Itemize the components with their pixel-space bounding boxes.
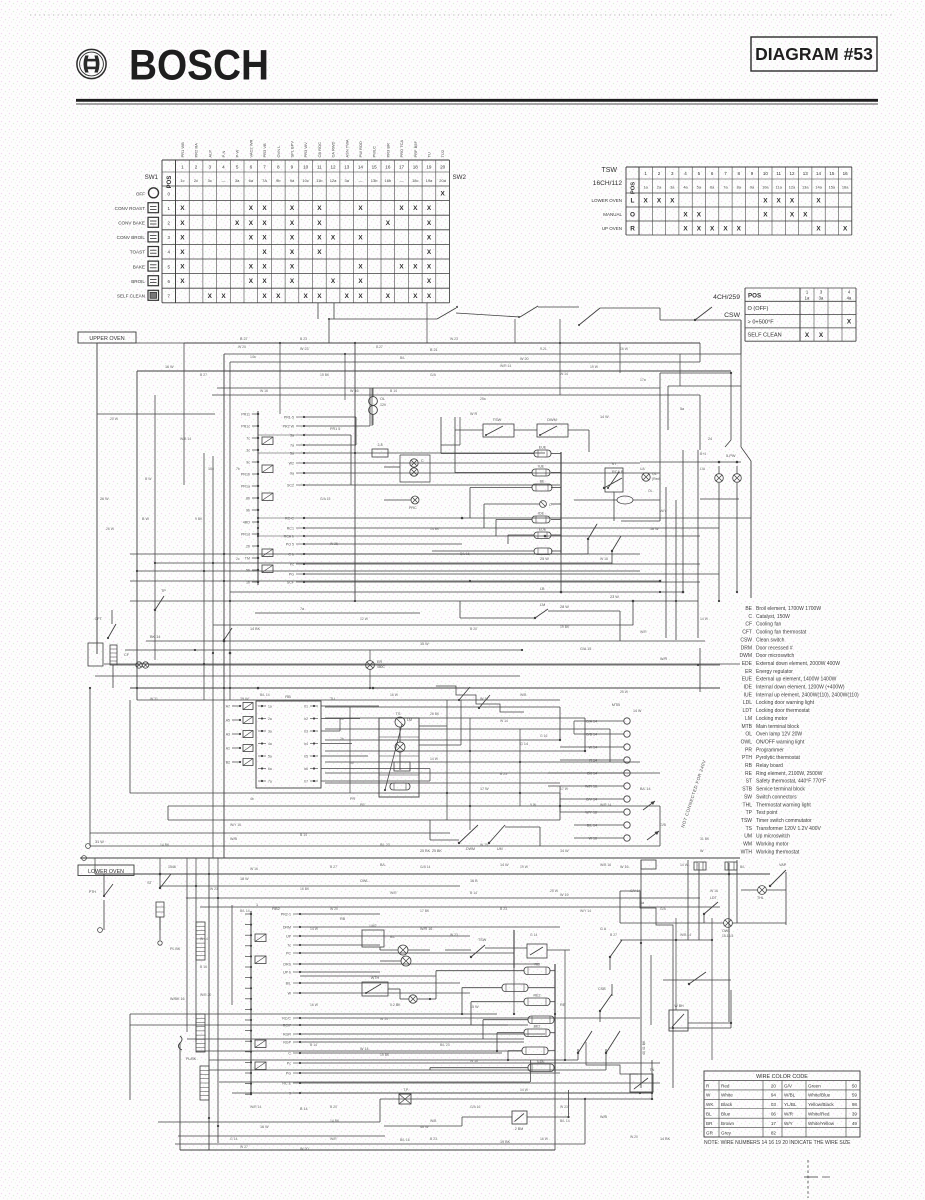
svg-text:13: 13	[803, 171, 809, 176]
svg-text:15 W: 15 W	[470, 1005, 479, 1009]
wire	[568, 1090, 570, 1117]
svg-text:X: X	[345, 293, 350, 300]
svg-text:RE: RE	[745, 771, 753, 777]
wire	[485, 947, 527, 949]
wire staircase right	[620, 891, 673, 956]
svg-text:50: 50	[852, 1083, 858, 1088]
svg-text:Service terminal block: Service terminal block	[756, 787, 805, 793]
svg-text:10a: 10a	[762, 185, 769, 190]
svg-text:OWL: OWL	[741, 739, 753, 745]
svg-text:14a: 14a	[250, 355, 256, 359]
wire	[350, 435, 352, 485]
wire	[632, 601, 634, 625]
svg-text:B/L: B/L	[390, 935, 395, 939]
svg-text:X: X	[697, 211, 702, 218]
wire staircase lower b	[586, 1065, 638, 1074]
wire	[430, 839, 459, 841]
svg-text:25 BK: 25 BK	[432, 849, 442, 853]
svg-text:18 W: 18 W	[240, 877, 249, 881]
wire	[103, 874, 105, 896]
wire	[682, 450, 684, 592]
wire	[484, 503, 540, 505]
svg-text:B 27: B 27	[610, 933, 617, 937]
svg-text:RC/7: RC/7	[283, 1024, 291, 1028]
svg-text:Relay board: Relay board	[756, 763, 783, 769]
wire color code table	[704, 1071, 860, 1137]
wire	[380, 949, 398, 951]
svg-text:ST: ST	[147, 881, 153, 885]
svg-text:G/B 14: G/B 14	[586, 733, 597, 737]
wire RB2 pin b	[293, 1072, 300, 1074]
switch CSB	[599, 1010, 601, 1012]
svg-text:16 W: 16 W	[310, 1003, 319, 1007]
svg-text:4a: 4a	[268, 742, 272, 746]
svg-text:16 W: 16 W	[165, 365, 174, 369]
wire	[698, 863, 700, 940]
lamp ER	[366, 661, 375, 670]
svg-text:2c: 2c	[236, 557, 240, 561]
svg-text:11: 11	[317, 165, 322, 170]
junction	[369, 687, 371, 689]
svg-text:X: X	[249, 264, 254, 271]
svg-text:W/B 14: W/B 14	[180, 437, 191, 441]
wire	[732, 922, 786, 924]
svg-text:IDE: IDE	[538, 512, 545, 516]
wire	[633, 499, 660, 501]
wire	[369, 669, 371, 688]
junction	[697, 664, 699, 666]
svg-text:X: X	[413, 205, 418, 212]
svg-text:Safety thermostat, 440°F 770°F: Safety thermostat, 440°F 770°F	[756, 779, 826, 785]
svg-text:EUE: EUE	[742, 677, 753, 683]
wire	[369, 388, 371, 426]
connector box	[255, 1062, 266, 1070]
wire	[462, 987, 502, 989]
svg-text:Door recessed #: Door recessed #	[756, 645, 793, 651]
svg-text:25a: 25a	[480, 397, 486, 401]
resistor GR3	[200, 1066, 209, 1100]
wire	[231, 905, 233, 1005]
svg-text:WIRE COLOR CODE: WIRE COLOR CODE	[756, 1074, 808, 1080]
wire	[527, 1116, 569, 1118]
wire	[496, 519, 532, 521]
svg-text:POS: POS	[631, 182, 637, 194]
wire	[186, 858, 188, 874]
svg-text:W 16: W 16	[589, 837, 597, 841]
UPPER OVEN label	[78, 332, 136, 343]
wire	[137, 370, 731, 372]
svg-text:—: —	[400, 178, 404, 183]
element X-box	[399, 1094, 411, 1104]
connector strip RB2	[245, 911, 252, 1095]
wire	[711, 918, 713, 1060]
wire RB2 pin	[293, 971, 300, 973]
transformer TS	[379, 711, 419, 797]
svg-text:VAP: VAP	[779, 863, 787, 867]
svg-text:15-16-5: 15-16-5	[722, 934, 734, 938]
svg-text:C b: C b	[288, 553, 294, 557]
svg-text:W 20: W 20	[330, 907, 338, 911]
svg-text:OWL: OWL	[360, 879, 368, 883]
junction	[446, 792, 448, 794]
svg-text:PR1 5: PR1 5	[330, 427, 340, 431]
svg-text:G/A: G/A	[660, 907, 667, 911]
svg-text:B/L 14: B/L 14	[560, 1119, 570, 1123]
svg-text:0.2 BK: 0.2 BK	[390, 1003, 401, 1007]
svg-text:b5: b5	[304, 755, 308, 759]
svg-text:14 W: 14 W	[680, 863, 689, 867]
svg-text:14 BK: 14 BK	[430, 527, 440, 531]
svg-text:> 0+500°F: > 0+500°F	[748, 319, 775, 325]
svg-text:X: X	[683, 225, 688, 232]
svg-text:10c: 10c	[302, 178, 308, 183]
svg-text:Brown: Brown	[721, 1121, 734, 1126]
svg-text:X: X	[399, 264, 404, 271]
svg-text:3a: 3a	[819, 296, 824, 301]
junction	[303, 517, 305, 519]
svg-text:C: C	[748, 614, 752, 620]
junction	[730, 1022, 732, 1024]
wire	[371, 388, 373, 426]
switch RE sw	[577, 1052, 579, 1054]
svg-text:ASN TWA: ASN TWA	[344, 139, 349, 157]
svg-text:16: 16	[385, 165, 391, 170]
wire	[483, 504, 485, 528]
svg-text:12V: 12V	[380, 403, 387, 407]
svg-text:25 W: 25 W	[540, 557, 549, 561]
svg-text:TU: TU	[330, 697, 335, 701]
svg-text:WTH: WTH	[371, 976, 380, 980]
element EUE	[534, 450, 551, 457]
svg-text:OVN L: OVN L	[276, 145, 281, 158]
svg-text:14 W: 14 W	[310, 927, 319, 931]
wire	[399, 727, 401, 742]
svg-text:4CH/259: 4CH/259	[713, 294, 740, 301]
svg-text:X: X	[427, 249, 432, 256]
svg-text:3a: 3a	[268, 730, 272, 734]
svg-text:—: —	[221, 178, 225, 183]
wire PR3 pin	[296, 553, 304, 555]
svg-text:CB ROC: CB ROC	[317, 142, 322, 158]
svg-text:G 14: G 14	[530, 933, 537, 937]
svg-text:X: X	[262, 278, 267, 285]
svg-text:X: X	[803, 211, 808, 218]
svg-text:9c: 9c	[246, 461, 250, 465]
wire	[740, 386, 742, 447]
wire	[429, 1068, 431, 1070]
element BE	[532, 484, 552, 491]
svg-text:6a: 6a	[268, 767, 272, 771]
svg-text:39: 39	[852, 1112, 858, 1117]
wire PR2 pin	[296, 452, 304, 454]
wire	[675, 500, 677, 640]
lamp OWL2	[724, 919, 733, 928]
svg-text:20a: 20a	[439, 178, 446, 183]
svg-text:PR3 VB: PR3 VB	[262, 143, 267, 158]
svg-text:PR1b: PR1b	[241, 473, 250, 477]
svg-text:X: X	[290, 205, 295, 212]
wire	[90, 832, 450, 834]
svg-text:X: X	[427, 264, 432, 271]
svg-text:W/Y: W/Y	[660, 509, 667, 513]
svg-text:W/R 16: W/R 16	[420, 927, 432, 931]
svg-text:7: 7	[263, 165, 266, 170]
svg-text:X: X	[386, 220, 391, 227]
svg-text:8b: 8b	[246, 497, 250, 501]
svg-text:Red: Red	[721, 1083, 730, 1088]
svg-text:14 W: 14 W	[520, 1088, 529, 1092]
svg-text:DRM: DRM	[741, 645, 752, 651]
header rule	[76, 99, 878, 102]
svg-text:9b: 9b	[246, 509, 250, 513]
svg-text:B/L 14: B/L 14	[240, 909, 250, 913]
svg-text:Locking door thermostat: Locking door thermostat	[756, 708, 810, 714]
switch box 2BM	[512, 1111, 527, 1124]
connector strip SW upper	[226, 703, 253, 766]
wire	[208, 858, 210, 874]
svg-text:B 27: B 27	[200, 373, 207, 377]
svg-text:PRO TCA: PRO TCA	[399, 139, 404, 157]
wire	[111, 610, 113, 624]
svg-text:12a: 12a	[789, 185, 796, 190]
svg-text:Switch connectors: Switch connectors	[756, 794, 797, 800]
svg-text:X: X	[427, 220, 432, 227]
svg-text:W 19: W 19	[480, 843, 488, 847]
svg-text:B 27: B 27	[240, 337, 248, 341]
svg-text:PTH: PTH	[742, 755, 752, 761]
wire	[669, 1027, 731, 1029]
wire	[440, 417, 442, 454]
svg-text:Cooling fan: Cooling fan	[756, 622, 782, 628]
svg-text:94: 94	[771, 1093, 777, 1098]
svg-text:W/R 16: W/R 16	[585, 785, 597, 789]
svg-text:Internal up element, 2400W(110: Internal up element, 2400W(110), 2400W(1…	[756, 692, 859, 698]
svg-text:CONV ROAST: CONV ROAST	[115, 206, 146, 211]
svg-text:W 23: W 23	[450, 933, 458, 937]
wire	[380, 1098, 651, 1100]
svg-text:15 W: 15 W	[420, 642, 429, 646]
svg-text:B 14: B 14	[390, 389, 397, 393]
wire	[574, 499, 617, 501]
wire	[137, 699, 560, 701]
junction	[711, 939, 713, 941]
wire RB2 pin	[293, 963, 300, 965]
svg-text:28 W: 28 W	[560, 605, 569, 609]
svg-text:X: X	[723, 225, 728, 232]
svg-text:B 16: B 16	[200, 965, 207, 969]
svg-text:B 23: B 23	[500, 772, 507, 776]
svg-text:31 W: 31 W	[95, 840, 104, 844]
svg-text:PL/BK: PL/BK	[186, 1057, 197, 1061]
connector box	[255, 956, 266, 964]
svg-text:T.P.: T.P.	[403, 1088, 409, 1092]
wire PR2 pin	[296, 484, 304, 486]
wire	[155, 562, 612, 564]
wire outline bottom	[186, 1026, 188, 1032]
svg-text:CONV BAKE: CONV BAKE	[118, 221, 145, 226]
svg-text:PG: PG	[286, 1072, 291, 1076]
wire	[587, 539, 589, 554]
switch UM	[488, 842, 490, 844]
wire	[219, 1081, 530, 1083]
svg-text:Thermostat warning light: Thermostat warning light	[756, 802, 811, 808]
svg-text:1: 1	[181, 165, 184, 170]
wire RB2 pin	[293, 992, 300, 994]
wire	[574, 837, 600, 839]
svg-text:WTH: WTH	[741, 849, 753, 855]
svg-text:X: X	[737, 225, 742, 232]
wire	[497, 1032, 524, 1034]
wire	[455, 472, 532, 474]
junction	[354, 342, 356, 344]
svg-text:X: X	[317, 249, 322, 256]
wire	[160, 885, 460, 887]
junction	[675, 600, 677, 602]
wire	[679, 354, 681, 386]
svg-text:CSW: CSW	[740, 637, 752, 643]
svg-text:2b: 2b	[340, 737, 344, 741]
svg-text:G 16: G 16	[540, 734, 547, 738]
wire	[349, 707, 351, 793]
svg-text:(Red): (Red)	[652, 477, 660, 481]
svg-text:OL: OL	[652, 472, 657, 476]
wire	[508, 534, 534, 536]
wire	[568, 429, 589, 431]
svg-text:PR3 BR: PR3 BR	[385, 143, 390, 158]
svg-text:G/A: G/A	[430, 373, 437, 377]
junction	[257, 535, 259, 537]
svg-text:X: X	[317, 234, 322, 241]
svg-text:B/L 23: B/L 23	[440, 1043, 450, 1047]
svg-text:G/A 16: G/A 16	[470, 1105, 480, 1109]
wire	[430, 1067, 528, 1069]
svg-text:W 14: W 14	[560, 372, 568, 376]
connector box	[262, 465, 273, 473]
wire	[659, 806, 661, 846]
svg-text:20 W: 20 W	[110, 417, 119, 421]
wire	[461, 1117, 463, 1126]
wire	[209, 1069, 606, 1071]
tick	[804, 1176, 818, 1178]
svg-text:b2: b2	[304, 717, 308, 721]
svg-text:26 W: 26 W	[100, 497, 109, 501]
svg-text:Black: Black	[721, 1102, 733, 1107]
svg-text:RC/C: RC/C	[282, 1017, 291, 1021]
wire	[429, 820, 431, 840]
wire	[672, 956, 674, 1088]
trunk mid	[354, 343, 356, 601]
svg-text:X: X	[816, 197, 821, 204]
lamp LDL	[715, 474, 724, 483]
svg-text:B 21: B 21	[430, 348, 438, 352]
svg-text:16 W: 16 W	[620, 347, 629, 351]
svg-text:B 14: B 14	[470, 891, 477, 895]
svg-text:W 25: W 25	[330, 542, 338, 546]
svg-text:14 BK: 14 BK	[250, 627, 261, 631]
wire	[514, 429, 537, 431]
svg-text:2 BM: 2 BM	[515, 1127, 523, 1131]
wire	[175, 1143, 585, 1145]
svg-text:X: X	[331, 278, 336, 285]
svg-text:X: X	[262, 264, 267, 271]
element cap v	[156, 902, 164, 917]
svg-text:BAKE: BAKE	[133, 264, 145, 269]
svg-text:Programmer: Programmer	[756, 747, 784, 753]
element BE2	[524, 1029, 550, 1037]
svg-text:IUE: IUE	[744, 692, 753, 698]
svg-text:16 W: 16 W	[390, 693, 399, 697]
svg-text:BE2: BE2	[534, 1025, 541, 1029]
svg-text:W/R: W/R	[390, 891, 397, 895]
svg-text:Locking door warning light: Locking door warning light	[756, 700, 815, 706]
switch MTC	[609, 956, 611, 958]
wire	[620, 939, 712, 941]
wire	[551, 534, 561, 536]
wire labels	[100, 337, 712, 1151]
svg-text:X: X	[317, 293, 322, 300]
switch RCA/B	[603, 487, 605, 489]
svg-text:RE2: RE2	[534, 994, 541, 998]
wire RB2 pin b	[293, 1017, 300, 1019]
wire	[460, 617, 535, 619]
wire	[90, 845, 660, 847]
junction	[559, 739, 561, 741]
svg-text:Energy regulator: Energy regulator	[756, 669, 793, 675]
wire	[321, 730, 340, 732]
wire	[129, 700, 131, 793]
wire	[435, 971, 437, 999]
svg-text:16b: 16b	[385, 178, 392, 183]
svg-text:LM: LM	[407, 718, 412, 722]
svg-text:X: X	[262, 234, 267, 241]
junction	[682, 591, 685, 594]
svg-text:b1: b1	[304, 705, 308, 709]
tick	[822, 1176, 830, 1178]
wire	[548, 1050, 555, 1052]
svg-text:4: 4	[222, 165, 225, 170]
svg-text:W 14: W 14	[500, 719, 508, 723]
junction	[559, 805, 561, 807]
svg-text:G/A 14: G/A 14	[586, 720, 597, 724]
svg-text:BOSCH: BOSCH	[129, 42, 269, 90]
svg-text:RGP: RGP	[283, 1041, 291, 1045]
wire RB2 pin b	[293, 1082, 300, 1084]
wire	[429, 769, 431, 782]
wire RB2 pin b	[293, 1041, 300, 1043]
wire	[369, 650, 371, 661]
wire PR3 pin	[296, 535, 304, 537]
wire	[137, 570, 640, 572]
oval PRC2	[617, 496, 633, 504]
wire RB2 pin	[293, 944, 300, 946]
svg-text:CONV BROIL: CONV BROIL	[117, 235, 146, 240]
wire	[459, 601, 461, 618]
svg-text:LDT: LDT	[710, 896, 718, 900]
resistor GR2	[196, 1014, 205, 1052]
junction	[718, 600, 720, 602]
wire	[94, 858, 96, 874]
wire	[736, 466, 738, 474]
component box	[641, 860, 656, 869]
junction	[429, 998, 431, 1000]
svg-text:17 W: 17 W	[560, 787, 569, 791]
svg-text:UM: UM	[497, 847, 503, 851]
svg-text:25 W: 25 W	[550, 889, 559, 893]
svg-text:23 W: 23 W	[610, 595, 619, 599]
svg-text:Internal down element, 1200W (: Internal down element, 1200W (+400W)	[756, 685, 845, 691]
svg-text:7c: 7c	[287, 944, 291, 948]
svg-text:4b: 4b	[250, 797, 254, 801]
